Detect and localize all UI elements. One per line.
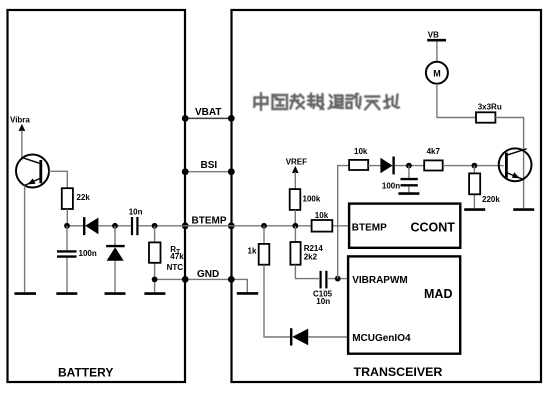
svg-text:M: M [433,68,441,78]
svg-text:47k: 47k [170,252,184,261]
capacitor 100n (transceiver) [401,179,418,185]
ground symbol under D2 [105,292,126,295]
IC CCONT box [349,204,460,248]
junction dot D2 top [112,223,118,229]
wire 22k to BTEMP node [66,209,68,226]
resistor 10k (upper) [349,160,368,170]
wire GND run [155,279,248,292]
C105 value label [313,290,333,306]
wire 100k to BTEMP [294,210,296,226]
wire Q1 emitter to ground [24,186,26,293]
wire BSI [185,171,232,173]
wire 100n cap drop [66,226,68,292]
resistor 10k (lower) [312,220,333,232]
wire R214 top [294,226,296,242]
VB supply bar [427,39,446,42]
svg-text:VREF: VREF [286,157,307,166]
watermark text (gray CJK) [254,93,399,110]
svg-text:TRANSCEIVER: TRANSCEIVER [354,365,443,379]
battery box [8,10,186,382]
wire Q1 base to R 22k [49,171,67,188]
wire 1k to diode D3 [264,265,290,337]
ground symbol transceiver GND [237,292,258,295]
svg-text:100n: 100n [382,181,400,190]
junction dot GND transceiver edge [228,276,235,283]
wire 4k7 to Q2 base [443,165,504,167]
transistor Q1 (battery) [16,155,49,188]
wire 220k drop [473,166,475,209]
wire BTEMP main run [138,225,311,227]
diode D3 (points left, MCUGenIO4) [291,328,308,345]
svg-text:10k: 10k [315,211,329,220]
junction dot RT bottom GND [152,277,158,283]
svg-text:BTEMP: BTEMP [192,215,227,226]
junction dot BTEMP battery edge [182,222,189,229]
junction dot VIBRAPWM [335,276,341,282]
wire VB to motor [436,42,438,63]
junction dot BSI left [182,168,189,175]
wire 10k to D4 [368,165,380,167]
capacitor 10n (series) [132,217,137,235]
wire VBAT [185,117,232,119]
wire C105 to VIBRAPWM pin [328,278,348,280]
diode D4 (points right) [380,157,393,175]
resistor 22k [62,188,73,209]
diode D1 (points left) [84,217,98,235]
ground symbol Q2 emitter [513,208,534,211]
junction dot RT top [152,223,158,229]
svg-text:CCONT: CCONT [411,221,456,235]
wire BTEMP into transceiver [332,225,349,227]
wire RT drop [154,226,156,292]
transistor Q2 (transceiver) [499,148,532,181]
svg-text:10k: 10k [354,147,368,156]
node Vibra arrow [19,124,26,131]
capacitor 100n (battery) [57,251,77,256]
junction dot BSI right [228,168,235,175]
RT value label [167,245,185,272]
wire 1k top drop [263,226,265,244]
resistor 3x3Ru [476,112,495,122]
svg-text:VBAT: VBAT [195,107,221,118]
svg-text:2k2: 2k2 [304,252,318,261]
svg-text:220k: 220k [482,195,500,204]
resistor 1k [259,244,270,265]
wire D2 drop [114,226,116,292]
ground symbol under 100n right [398,192,419,195]
junction dot BTEMP transceiver edge [228,222,235,229]
junction dot VBAT right [228,115,235,122]
svg-text:MCUGenIO4: MCUGenIO4 [352,333,411,344]
junction dot 1k top [261,223,267,229]
wire motor to 3x3Ru [437,84,476,118]
svg-text:100k: 100k [303,195,321,204]
svg-text:3x3Ru: 3x3Ru [478,103,502,112]
ground symbol Q1 emitter [14,292,36,295]
svg-text:BTEMP: BTEMP [352,222,387,233]
svg-text:BATTERY: BATTERY [58,366,113,380]
svg-text:VIBRAPWM: VIBRAPWM [352,275,408,286]
svg-text:Vibra: Vibra [10,116,30,125]
svg-text:NTC: NTC [167,263,184,272]
wire R214 to C105 [295,265,319,279]
resistor 4k7 [424,160,443,170]
junction dot VBAT left [182,115,189,122]
diode D2 (cathode up) [106,246,125,261]
wire D1 to C 10n [98,225,131,227]
wire vibra to Q1 collector [21,130,23,158]
resistor R214 2k2 [290,242,300,265]
svg-text:4k7: 4k7 [427,147,441,156]
wire VREF to 100k [294,172,296,189]
IC MAD box [348,256,460,353]
resistor 220k [469,173,480,194]
motor M1 [426,62,448,84]
wire BTEMP run battery [67,225,83,227]
wire riser VIBRAPWM to 10k [338,166,349,279]
transceiver box [232,10,542,382]
svg-text:100n: 100n [79,249,97,258]
ground symbol under RT [144,292,165,295]
junction dot GND battery edge [182,276,189,283]
wire 100n right drop [408,166,410,193]
svg-text:10n: 10n [129,208,143,217]
junction dot 22k/diode [64,223,70,229]
junction dot 100n right [406,163,412,169]
junction dot 220k [472,163,478,169]
R214 value label [304,244,324,261]
svg-text:1k: 1k [248,246,257,255]
resistor RT 47k NTC [149,242,161,262]
wire D4 to 4k7 [395,165,425,167]
svg-text:22k: 22k [77,193,91,202]
svg-text:GND: GND [197,269,219,280]
junction dot 100k/R214 [293,223,299,229]
ground symbol under 100n [56,292,77,295]
wire D3 to MAD pin [308,336,348,338]
wire 3x3Ru to Q2 collector and emitter to ground [495,118,523,209]
capacitor C105 10n [321,271,327,289]
svg-text:MAD: MAD [424,287,452,301]
node VREF arrow [292,166,299,173]
resistor 100k [290,189,301,210]
svg-text:10n: 10n [316,297,330,306]
svg-text:VB: VB [428,31,439,40]
svg-text:BSI: BSI [201,160,218,171]
ground symbol under 220k [464,208,485,211]
